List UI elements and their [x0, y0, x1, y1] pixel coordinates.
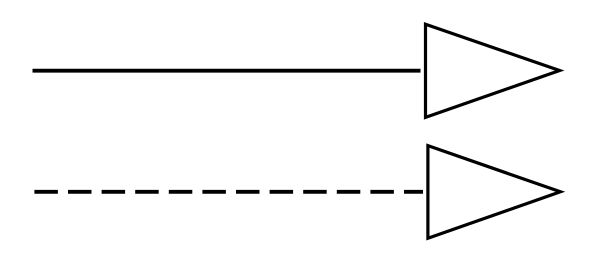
- dashed arrow shaft: [34, 190, 423, 194]
- solid arrow head (hollow triangle): [426, 24, 560, 117]
- dashed arrow head (hollow triangle): [428, 146, 561, 239]
- solid arrow shaft: [33, 69, 421, 73]
